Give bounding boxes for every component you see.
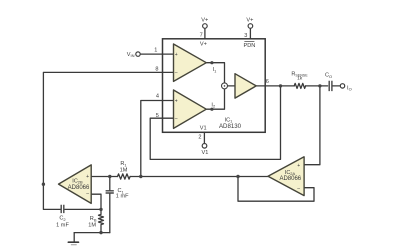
terminal V1 pin2 <box>202 144 207 149</box>
svg-text:1M: 1M <box>120 167 128 173</box>
wire IC2B output down through C2 <box>43 184 60 209</box>
svg-text:+: + <box>297 163 300 169</box>
wire ground rail <box>74 232 110 234</box>
wire pin4 down to R1 rail <box>141 101 174 177</box>
svg-text:VIN: VIN <box>127 52 135 58</box>
svg-text:1: 1 <box>154 47 157 53</box>
svg-text:8: 8 <box>155 67 158 73</box>
wire IC2B minus input <box>91 194 101 209</box>
svg-text:V+: V+ <box>246 18 253 24</box>
wire Rsense to Co <box>306 85 328 87</box>
svg-text:1M: 1M <box>88 223 96 229</box>
terminal V+ pin3 <box>248 24 253 29</box>
ground <box>73 233 75 242</box>
wire Rsense node down to IC2A plus input <box>304 86 320 165</box>
svg-text:+: + <box>175 52 178 58</box>
op-amp A3 output buffer <box>235 74 256 98</box>
wire main rail IC2B plus input to IC2A output <box>91 176 268 178</box>
svg-text:2: 2 <box>198 134 201 140</box>
summing node circle <box>222 83 228 89</box>
op-amp IC2A AD8066 <box>268 157 304 196</box>
svg-text:6: 6 <box>266 79 269 85</box>
capacitor C1 plates <box>106 191 114 193</box>
svg-text:7: 7 <box>200 32 203 38</box>
svg-text:1 mF: 1 mF <box>116 193 129 199</box>
terminal Io output <box>340 84 344 88</box>
svg-text:PDN: PDN <box>243 43 255 49</box>
wire summing circle to buffer <box>228 85 235 87</box>
svg-text:–: – <box>297 186 300 192</box>
svg-text:C2: C2 <box>59 216 66 222</box>
IC1 box AD8130 <box>163 39 266 133</box>
resistor Rsense 1k <box>294 83 305 88</box>
svg-text:–: – <box>175 70 178 76</box>
resistor R1 1M <box>118 174 131 179</box>
svg-text:V+: V+ <box>200 42 207 48</box>
svg-text:IO: IO <box>347 85 352 91</box>
svg-text:RB: RB <box>90 216 97 222</box>
svg-text:4: 4 <box>156 94 159 100</box>
op-amp A1 top input stage <box>174 44 207 81</box>
wire C1 branch <box>109 177 111 191</box>
svg-text:AD8066: AD8066 <box>279 176 301 182</box>
svg-text:AD8130: AD8130 <box>219 123 242 130</box>
wire Co to output terminal <box>333 85 341 87</box>
svg-text:IC2B: IC2B <box>72 178 83 184</box>
op-amp IC2B AD8066 <box>59 165 92 204</box>
svg-text:3: 3 <box>244 33 247 39</box>
wire C1 bottom to ground rail <box>109 194 111 233</box>
svg-text:V1: V1 <box>200 126 207 132</box>
svg-text:5: 5 <box>156 113 159 119</box>
svg-text:–: – <box>175 116 178 122</box>
svg-text:1k: 1k <box>297 76 303 82</box>
wire pin6 output row <box>256 85 294 87</box>
wire C2 to RB node <box>65 208 101 210</box>
svg-text:CO: CO <box>325 73 332 79</box>
plus minus marks <box>86 52 300 197</box>
wire pin3 stub <box>249 28 251 39</box>
svg-text:+: + <box>86 174 89 180</box>
wire Vin to pin1 <box>140 53 173 55</box>
wire I2 to summing node <box>206 89 224 109</box>
wire IC2A feedback loop <box>238 177 314 202</box>
wire pin2 stub <box>203 132 205 143</box>
terminal V+ pin7 <box>203 24 208 29</box>
svg-text:V+: V+ <box>201 18 208 24</box>
wire I1 to summing node <box>206 63 224 83</box>
capacitor C2 plates <box>61 205 64 213</box>
terminal Vin <box>136 52 140 56</box>
op-amp A2 bottom input stage <box>174 90 207 128</box>
resistor RB 1M vertical <box>99 209 104 232</box>
svg-text:–: – <box>86 191 89 197</box>
svg-text:1 mF: 1 mF <box>56 222 69 228</box>
capacitor Co plates <box>329 81 332 91</box>
svg-text:+: + <box>175 98 178 104</box>
wire pin7 stub <box>204 28 206 39</box>
svg-text:V1: V1 <box>201 150 208 156</box>
wire pin5 feedback loop to output node <box>150 86 280 159</box>
wire pin8 loop to IC2B output <box>43 72 173 184</box>
